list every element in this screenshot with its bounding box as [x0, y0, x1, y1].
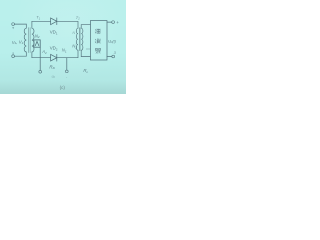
filter block: [90, 21, 107, 60]
stub into block left: [86, 48, 90, 50]
svg-text:N: N: [72, 31, 75, 35]
svg-text:N2: N2: [35, 33, 40, 39]
transformer T core: [29, 28, 30, 53]
arrow mark under top-left terminal: [12, 27, 14, 29]
wire top rail left: [32, 20, 51, 22]
svg-text:VD2: VD2: [50, 46, 58, 52]
terminal bottom middle: [65, 70, 68, 73]
svg-text:N2: N2: [72, 44, 77, 50]
wire top rail right: [57, 20, 78, 22]
svg-text:A2: A2: [41, 49, 47, 55]
wire input bottom: [15, 55, 27, 57]
svg-text:-: -: [66, 75, 68, 79]
terminal input top-left: [12, 23, 15, 26]
svg-text:T1: T1: [36, 15, 40, 21]
terminal input bottom-left: [12, 55, 15, 58]
terminal output bottom: [112, 55, 115, 58]
diode VD2: [51, 54, 57, 61]
svg-text:u1,: u1,: [12, 39, 17, 45]
diode VD1: [51, 18, 57, 25]
tick above bottom-left terminal: [12, 53, 14, 55]
svg-text:RD: RD: [49, 64, 55, 70]
wire bottom rail right: [57, 57, 78, 59]
wire bottom rail: [32, 57, 51, 59]
transformer T secondary winding: [32, 21, 34, 57]
transformer T primary winding: [24, 24, 26, 56]
block chinese char 2: [95, 39, 101, 44]
wire reactor to block top: [81, 24, 90, 26]
reactor core: [78, 28, 81, 51]
meter box with arrow: [34, 40, 40, 47]
wire output top: [107, 21, 112, 23]
svg-text:uo(t): uo(t): [108, 38, 116, 44]
svg-text:(c): (c): [60, 85, 66, 90]
block chinese char 1: [95, 29, 101, 54]
svg-text:T2: T2: [76, 15, 80, 21]
reactor right winding: [81, 25, 83, 57]
svg-text:N1: N1: [62, 48, 67, 54]
reactor left winding: [76, 21, 78, 57]
wire meter box drop: [39, 47, 41, 70]
terminal output top: [112, 21, 115, 24]
svg-text:RL: RL: [83, 68, 88, 74]
svg-text:V1: V1: [19, 39, 24, 45]
wire output bottom: [107, 55, 112, 57]
svg-text:u2: u2: [52, 75, 56, 80]
svg-text:3: 3: [114, 50, 117, 55]
node drop wire: [66, 58, 68, 70]
svg-text:+: +: [116, 20, 119, 25]
terminal below meter box: [39, 70, 42, 73]
wire reactor to block bottom: [81, 56, 90, 58]
wire input top: [15, 23, 27, 25]
svg-text:VD1: VD1: [50, 30, 58, 36]
block chinese char 3: [95, 48, 101, 53]
